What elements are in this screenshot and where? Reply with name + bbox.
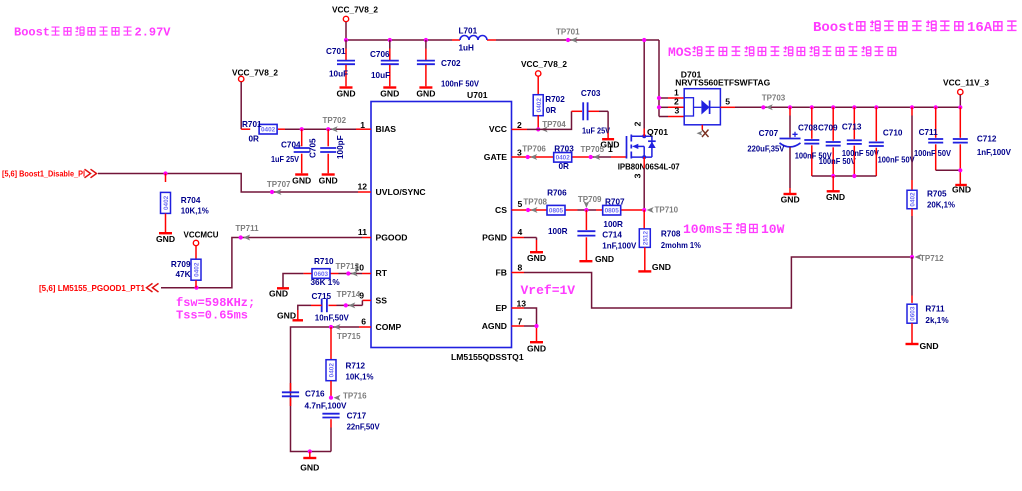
svg-text:TP713: TP713 xyxy=(336,262,360,271)
capacitor C702 100nF 50V xyxy=(417,40,480,89)
svg-text:R704: R704 xyxy=(181,196,201,205)
wire: C711/C712 ground bus xyxy=(936,170,961,184)
svg-text:10K,1%: 10K,1% xyxy=(346,373,375,382)
wire: R705 to TP712 node xyxy=(911,209,913,257)
test point TP703 xyxy=(761,94,786,111)
power flag VCC_7V8_2 (top input) xyxy=(332,5,378,41)
svg-text:PGOOD: PGOOD xyxy=(376,233,408,243)
ground under C701 xyxy=(336,88,355,99)
svg-text:[5,6] LM5155_PGOOD1_PT1: [5,6] LM5155_PGOOD1_PT1 xyxy=(39,284,145,293)
wire: input rail VCC_7V8_2 to L701 and switch node xyxy=(346,40,659,117)
svg-text:Boost: Boost xyxy=(813,20,855,36)
off-page connector Boost1_Disable_PI xyxy=(2,169,97,178)
ground at PGND xyxy=(527,252,546,263)
svg-text:100nF 50V: 100nF 50V xyxy=(914,149,951,158)
svg-text:R705: R705 xyxy=(927,190,947,199)
capacitor C707 220uF,35V polarized xyxy=(747,107,800,193)
svg-text:GND: GND xyxy=(277,310,296,320)
svg-text:3: 3 xyxy=(633,173,643,178)
capacitor C710 100nF 50V xyxy=(869,107,915,176)
svg-text:C710: C710 xyxy=(883,128,903,137)
power flag VCC_7V8_2 (BIAS branch) xyxy=(232,68,278,82)
svg-text:VCCMCU: VCCMCU xyxy=(184,230,219,240)
svg-text:0805: 0805 xyxy=(605,208,620,215)
svg-text:U701: U701 xyxy=(467,90,488,100)
svg-text:Boost: Boost xyxy=(14,26,50,40)
annotation: Boost designed for 16A continuous output current (pink) xyxy=(813,20,1017,36)
capacitor C717 22nF,50V xyxy=(322,412,380,452)
test point TP701 xyxy=(556,28,580,44)
svg-text:C714: C714 xyxy=(602,230,622,239)
wire: R710 to ground xyxy=(283,274,312,288)
svg-text:22nF,50V: 22nF,50V xyxy=(347,423,381,432)
wire: output cap ground bus xyxy=(812,175,877,177)
ground at C715 xyxy=(277,310,303,320)
wire: SS pin jog to C715 xyxy=(329,300,372,305)
svg-text:47K: 47K xyxy=(175,270,190,279)
ground under C707 xyxy=(781,194,800,205)
ground at AGND xyxy=(527,342,546,353)
svg-text:8: 8 xyxy=(518,263,523,273)
svg-text:GND: GND xyxy=(300,462,319,472)
node: D701 pin junctions xyxy=(657,96,661,110)
svg-text:0402: 0402 xyxy=(261,127,276,134)
wire: output rail to R705 xyxy=(911,107,913,190)
resistor R710 36K 1% xyxy=(311,257,341,287)
capacitor C716 4.7nF,100V xyxy=(282,383,347,411)
svg-text:VCC: VCC xyxy=(489,124,507,134)
power flag VCC_7V8_2 (VCC pin branch) xyxy=(521,59,567,76)
svg-text:C715: C715 xyxy=(312,292,332,301)
capacitor C703 1uF 25V xyxy=(581,89,611,135)
svg-text:C704: C704 xyxy=(281,140,301,149)
svg-text:GND: GND xyxy=(269,288,288,298)
svg-text:R701: R701 xyxy=(242,120,262,129)
wire: Q701 source to CS xyxy=(643,157,645,210)
node: R709 bottom junction xyxy=(194,286,198,290)
svg-text:3: 3 xyxy=(517,148,522,158)
wire: VCC pin 2 to R702/C703 xyxy=(512,111,583,129)
ground at C703 xyxy=(600,139,619,149)
resistor R705 20K,1% xyxy=(907,190,956,210)
U701 pin names xyxy=(376,124,508,332)
svg-text:GND: GND xyxy=(781,195,800,205)
capacitor C712 1nF,100V xyxy=(953,107,1012,170)
svg-text:100nF 50V: 100nF 50V xyxy=(878,156,915,165)
off-page connector LM5155_PGOOD1_PT1 xyxy=(39,283,159,293)
svg-text:13: 13 xyxy=(517,299,527,309)
ground under R711 xyxy=(906,341,939,351)
svg-text:1: 1 xyxy=(608,144,613,154)
svg-text:BIAS: BIAS xyxy=(376,124,397,134)
resistor R704 10K,1% xyxy=(161,174,210,233)
test point TP715 xyxy=(329,324,361,341)
svg-text:20K,1%: 20K,1% xyxy=(927,200,956,209)
svg-text:C717: C717 xyxy=(347,412,367,421)
wire: TP712 to R711 xyxy=(911,257,913,303)
svg-text:NRVTS560ETFSWFTAG: NRVTS560ETFSWFTAG xyxy=(675,78,770,88)
svg-text:C716: C716 xyxy=(305,390,325,399)
wire: FB pin 8 route to output divider xyxy=(512,257,913,308)
svg-text:GATE: GATE xyxy=(484,152,508,162)
svg-text:1nF,100V: 1nF,100V xyxy=(602,242,637,251)
svg-text:R709: R709 xyxy=(171,260,191,269)
svg-text:AGND: AGND xyxy=(482,321,507,331)
annotation: fsw=598KHz Tss=0.65ms (pink) xyxy=(176,296,255,323)
test point TP711 xyxy=(235,224,259,241)
svg-text:MOS: MOS xyxy=(668,45,692,60)
svg-text:C702: C702 xyxy=(441,59,461,68)
node: C704 junction on BIAS xyxy=(300,127,304,131)
annotation: Boost minimum working voltage 2.97V (pink) xyxy=(14,26,171,40)
power flag VCCMCU xyxy=(184,230,219,246)
svg-text:TP707: TP707 xyxy=(267,180,291,189)
wire: switch node to D701 anodes xyxy=(659,98,684,117)
ground under C705 xyxy=(319,175,338,186)
svg-text:[5,6] Boost1_Disable_PI: [5,6] Boost1_Disable_PI xyxy=(2,170,85,179)
svg-text:COMP: COMP xyxy=(376,322,402,332)
svg-text:16A: 16A xyxy=(967,20,993,36)
svg-text:L701: L701 xyxy=(459,27,478,36)
test point TP710 xyxy=(642,206,679,215)
svg-text:100nF 50V: 100nF 50V xyxy=(441,80,479,89)
svg-text:2: 2 xyxy=(517,120,522,130)
resistor R708 2mohm 1% current sense xyxy=(639,210,701,271)
svg-text:CS: CS xyxy=(495,205,507,215)
svg-text:TP702: TP702 xyxy=(323,116,347,125)
diode D701 NRVTS560ETFSWFTAG xyxy=(674,70,771,125)
svg-text:R708: R708 xyxy=(661,230,681,239)
svg-text:FB: FB xyxy=(496,268,507,278)
svg-text:C701: C701 xyxy=(326,47,346,56)
ground under C702 xyxy=(416,88,435,99)
capacitor C714 1nF,100V xyxy=(577,210,636,260)
svg-text:C705: C705 xyxy=(309,138,318,158)
wire: R711 to ground xyxy=(911,323,913,343)
svg-text:TP714: TP714 xyxy=(337,290,361,299)
svg-text:10uF: 10uF xyxy=(329,69,348,78)
wire: GATE pin 3 to Q701 gate xyxy=(512,156,627,158)
svg-text:C706: C706 xyxy=(370,50,390,59)
svg-text:EP: EP xyxy=(496,303,508,313)
svg-text:36K 1%: 36K 1% xyxy=(311,278,341,287)
svg-text:R702: R702 xyxy=(545,95,565,104)
svg-text:0603: 0603 xyxy=(910,306,917,321)
node: C705 junction on BIAS / test point TP702 xyxy=(323,116,347,132)
svg-text:GND: GND xyxy=(826,192,845,202)
svg-text:C712: C712 xyxy=(977,135,997,144)
svg-text:UVLO/SYNC: UVLO/SYNC xyxy=(376,187,426,197)
ground at R710 xyxy=(269,288,289,298)
node: switch node junction on rail xyxy=(642,38,646,42)
svg-text:0402: 0402 xyxy=(536,98,543,113)
transistor Q701 IPB80N06S4L-07 N-MOSFET xyxy=(608,121,680,178)
svg-text:TP712: TP712 xyxy=(920,254,944,263)
node: input rail junctions xyxy=(344,38,428,42)
svg-text:Q701: Q701 xyxy=(647,127,668,137)
svg-text:4: 4 xyxy=(518,227,523,237)
svg-text:10nF,50V: 10nF,50V xyxy=(315,314,350,323)
svg-text:5: 5 xyxy=(518,199,523,209)
svg-text:R711: R711 xyxy=(925,305,945,314)
svg-text:TP715: TP715 xyxy=(337,332,361,341)
svg-text:VCC_7V8_2: VCC_7V8_2 xyxy=(332,5,378,15)
test point TP716 xyxy=(329,392,367,401)
svg-text:PGND: PGND xyxy=(482,233,507,243)
node: EP/AGND junction xyxy=(534,324,538,328)
svg-text:TP710: TP710 xyxy=(655,206,679,215)
svg-text:0402: 0402 xyxy=(163,195,170,210)
svg-text:C711: C711 xyxy=(919,128,939,137)
resistor R712 10K,1% xyxy=(326,327,374,398)
test point TP708 xyxy=(523,198,547,213)
svg-text:Tss=0.65ms: Tss=0.65ms xyxy=(176,309,248,323)
svg-text:TP703: TP703 xyxy=(762,94,786,103)
svg-text:TP705: TP705 xyxy=(581,145,605,154)
svg-text:0402: 0402 xyxy=(910,192,917,207)
resistor R703 0R xyxy=(554,144,575,171)
power flag VCC_11V_3 (output) xyxy=(943,78,989,108)
svg-text:3: 3 xyxy=(675,106,680,116)
svg-text:C708: C708 xyxy=(798,124,818,133)
svg-text:0603: 0603 xyxy=(314,271,329,278)
svg-text:TP716: TP716 xyxy=(343,392,367,401)
svg-text:GND: GND xyxy=(336,89,355,99)
capacitor C715 10nF,50V xyxy=(311,292,349,323)
node: comp network ground junction xyxy=(308,449,312,453)
svg-text:11: 11 xyxy=(358,227,367,237)
svg-text:IPB80N06S4L-07: IPB80N06S4L-07 xyxy=(618,162,680,172)
svg-text:220uF,35V: 220uF,35V xyxy=(747,145,784,154)
svg-text:GND: GND xyxy=(527,253,546,263)
wire: PGND pin 4 to ground xyxy=(512,238,537,252)
svg-text:C709: C709 xyxy=(818,124,838,133)
capacitor C706 10uF xyxy=(370,40,399,86)
capacitor C713 100nF 50V xyxy=(842,107,879,176)
svg-text:10W: 10W xyxy=(761,222,785,237)
svg-text:0R: 0R xyxy=(546,106,557,115)
node: cap bus junctions xyxy=(831,174,856,178)
annotation: MOSFET and freewheeling diode need large copper area (pink) xyxy=(668,45,896,60)
resistor R709 47K xyxy=(171,246,201,288)
svg-text:GND: GND xyxy=(595,254,614,264)
svg-text:VCC_7V8_2: VCC_7V8_2 xyxy=(232,68,278,78)
test point TP712 / FB junction xyxy=(910,254,944,263)
svg-text:GND: GND xyxy=(292,176,311,186)
ground under C706 xyxy=(380,88,399,99)
test point TP705 xyxy=(581,145,605,160)
test point TP704 junction on VCC pin xyxy=(536,120,566,132)
wire: D701 cathode pin 5 to output rail xyxy=(720,106,960,108)
ground under C711/C712 xyxy=(952,184,971,194)
svg-text:100R: 100R xyxy=(548,227,568,236)
svg-text:100nF 50V: 100nF 50V xyxy=(842,149,879,158)
resistor R707 100R xyxy=(603,198,625,229)
svg-text:0805: 0805 xyxy=(549,208,564,215)
svg-text:C713: C713 xyxy=(842,123,862,132)
ground under comp network xyxy=(300,452,319,473)
svg-text:TP704: TP704 xyxy=(542,120,566,129)
svg-text:2512: 2512 xyxy=(642,231,649,246)
svg-text:GND: GND xyxy=(920,341,939,351)
svg-text:GND: GND xyxy=(380,89,399,99)
wire: EP pin 13 and AGND pin 7 to ground xyxy=(512,308,537,341)
node: output rail junctions xyxy=(788,105,963,109)
wire: Boost1_Disable_PI to UVLO/SYNC pin 12 xyxy=(98,174,371,193)
annotation: can withstand 10W for 100ms (pink) xyxy=(683,222,785,237)
svg-text:100nF 50V: 100nF 50V xyxy=(819,157,856,166)
no-connect X on D701 pin 4 xyxy=(697,125,709,137)
svg-text:6: 6 xyxy=(361,317,366,327)
svg-text:GND: GND xyxy=(156,234,175,244)
svg-text:Vref=1V: Vref=1V xyxy=(521,283,576,298)
svg-text:2k,1%: 2k,1% xyxy=(925,316,949,325)
wire: VCC_7V8_2 down to R701 and BIAS pin 1 xyxy=(241,82,371,129)
svg-text:R703: R703 xyxy=(554,144,574,153)
wire: COMP pin to compensation network xyxy=(291,327,372,452)
svg-text:VCC_11V_3: VCC_11V_3 xyxy=(943,78,989,88)
annotation: Vref=1V (pink) xyxy=(521,283,576,298)
svg-text:GND: GND xyxy=(416,89,435,99)
ground under C714 xyxy=(579,254,614,264)
svg-text:7: 7 xyxy=(518,317,523,327)
svg-text:10uF: 10uF xyxy=(371,71,390,80)
svg-text:SS: SS xyxy=(376,296,388,306)
svg-text:C703: C703 xyxy=(581,89,601,98)
svg-text:2.97V: 2.97V xyxy=(135,26,172,40)
capacitor C701 10uF xyxy=(326,40,355,86)
test point TP713 xyxy=(336,262,360,277)
svg-text:5: 5 xyxy=(725,97,730,107)
resistor R702 0R xyxy=(533,77,565,130)
capacitor C708 100nF 50V xyxy=(795,107,832,176)
capacitor C705 100pF xyxy=(309,129,346,173)
node: C712 ground junction xyxy=(958,168,962,172)
svg-text:1uF 25V: 1uF 25V xyxy=(582,126,610,135)
svg-text:0R: 0R xyxy=(559,162,570,171)
svg-text:TP708: TP708 xyxy=(523,198,547,207)
svg-text:TP706: TP706 xyxy=(522,144,546,153)
ground under R704 xyxy=(156,233,175,244)
svg-text:RT: RT xyxy=(376,268,388,278)
ground under R708 xyxy=(638,262,671,272)
svg-text:GND: GND xyxy=(319,176,338,186)
svg-text:0R: 0R xyxy=(249,135,260,144)
svg-text:C707: C707 xyxy=(759,129,779,138)
capacitor C709 100nF 50V xyxy=(818,107,856,176)
svg-text:R712: R712 xyxy=(346,362,366,371)
capacitor C704 1uF 25V xyxy=(271,129,310,173)
svg-text:4.7nF,100V: 4.7nF,100V xyxy=(305,402,348,411)
svg-text:TP711: TP711 xyxy=(235,224,259,233)
svg-text:R706: R706 xyxy=(547,189,567,198)
svg-text:0402: 0402 xyxy=(556,155,571,162)
resistor R701 0R 0402 xyxy=(242,120,277,144)
test point TP714 xyxy=(337,290,361,308)
svg-text:1uF 25V: 1uF 25V xyxy=(271,155,299,164)
svg-text:TP709: TP709 xyxy=(578,195,602,204)
resistor R711 2k,1% xyxy=(907,304,949,325)
test point TP707 xyxy=(267,180,291,195)
svg-text:2: 2 xyxy=(633,121,643,126)
op-amp U701 LM5155QDSSTQ1 controller body xyxy=(371,90,524,362)
wire: CS pin 5 to R706 R707 sense node xyxy=(512,209,645,211)
resistor R706 100R xyxy=(547,189,568,236)
wire: C715 to ground flag xyxy=(298,305,311,319)
U701 pin numbers xyxy=(354,120,526,327)
ground under cap bus xyxy=(826,176,845,202)
svg-text:0402: 0402 xyxy=(329,363,336,378)
inductor L701 1uH xyxy=(459,27,488,53)
capacitor C711 100nF 50V xyxy=(914,107,951,170)
svg-text:R710: R710 xyxy=(314,257,334,266)
svg-text:GND: GND xyxy=(952,184,971,194)
svg-text:GND: GND xyxy=(652,262,671,272)
svg-text:LM5155QDSSTQ1: LM5155QDSSTQ1 xyxy=(451,352,524,362)
node: R704 junction xyxy=(163,171,167,175)
svg-text:2mohm 1%: 2mohm 1% xyxy=(661,241,702,250)
wire: C703 to ground xyxy=(589,111,609,138)
wire: PGOOD net to pin 11 xyxy=(161,238,371,288)
wire: Q701 drain to switch node xyxy=(643,40,645,136)
svg-text:TP701: TP701 xyxy=(556,28,580,37)
svg-text:100R: 100R xyxy=(603,220,623,229)
test point TP706 xyxy=(522,144,546,160)
svg-text:0402: 0402 xyxy=(194,262,201,277)
test point TP709 (arrow down) xyxy=(578,195,602,212)
svg-text:GND: GND xyxy=(527,344,546,354)
svg-text:1nF,100V: 1nF,100V xyxy=(977,148,1012,157)
svg-text:12: 12 xyxy=(357,182,367,192)
wire: RT pin to R710 xyxy=(331,273,372,275)
svg-text:10K,1%: 10K,1% xyxy=(181,207,210,216)
ground under C704 xyxy=(292,175,311,186)
svg-text:100pF: 100pF xyxy=(336,135,345,159)
svg-text:VCC_7V8_2: VCC_7V8_2 xyxy=(521,59,567,69)
svg-text:100ms: 100ms xyxy=(683,222,722,237)
svg-text:1uH: 1uH xyxy=(459,44,475,53)
svg-text:R707: R707 xyxy=(605,198,625,207)
